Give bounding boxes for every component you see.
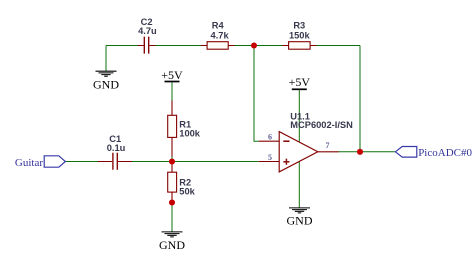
svg-text:4.7u: 4.7u xyxy=(138,26,157,36)
svg-text:+5V: +5V xyxy=(289,75,311,89)
svg-text:Guitar: Guitar xyxy=(15,157,43,169)
op-amp minus sign xyxy=(283,140,289,142)
svg-text:GND: GND xyxy=(159,238,185,252)
value label R2 xyxy=(179,178,195,197)
wire +5V rail down through R1 to signal node xyxy=(171,82,173,162)
resistor R4 xyxy=(207,42,228,50)
wire right vertical from top rail down to output node xyxy=(359,46,361,152)
svg-text:MCP6002-I/SN: MCP6002-I/SN xyxy=(290,120,353,130)
value label U1.1 MCP6002 xyxy=(290,111,353,130)
junction node R2 bottom xyxy=(169,199,175,205)
pin stubs R2 xyxy=(171,162,173,203)
pin stubs C1 xyxy=(98,161,132,163)
ground GND2 under op-amp xyxy=(287,208,313,228)
wire main signal path Guitar to C1 to pin 5 xyxy=(65,161,259,163)
wire GND1 drop from top rail xyxy=(105,46,107,71)
wire top feedback rail from GND corner to right corner xyxy=(106,45,360,47)
pin number 5 xyxy=(268,153,272,162)
svg-text:5: 5 xyxy=(268,153,272,162)
svg-text:GND: GND xyxy=(287,214,313,228)
junction node output xyxy=(357,149,363,155)
svg-text:GND: GND xyxy=(93,77,119,91)
svg-text:50k: 50k xyxy=(179,186,195,196)
wire from R4/R3 junction down and right to pin 6 xyxy=(254,46,259,142)
resistor R1 xyxy=(168,115,177,137)
wire op-amp V- to GND2 xyxy=(298,161,300,207)
global label Guitar xyxy=(15,156,66,169)
pin stubs C2 xyxy=(138,45,156,47)
svg-text:100k: 100k xyxy=(179,129,201,139)
pin number 7 xyxy=(326,141,330,150)
wire output apex to node and to PicoADC label xyxy=(338,151,395,153)
op-amp plus sign xyxy=(283,159,289,165)
power +5V symbol right xyxy=(289,75,311,89)
pin 6 stub op-amp xyxy=(259,140,279,142)
capacitor C1 xyxy=(113,153,117,170)
svg-text:150k: 150k xyxy=(289,31,311,41)
svg-text:4.7k: 4.7k xyxy=(211,31,230,41)
pin 5 stub op-amp xyxy=(259,161,279,163)
pin stubs R4 xyxy=(201,45,235,47)
pin 7 stub op-amp output xyxy=(318,151,339,153)
junction node R1/R2 input xyxy=(169,158,175,164)
resistor R3 xyxy=(289,42,311,50)
svg-text:6: 6 xyxy=(268,133,272,142)
svg-text:R3: R3 xyxy=(293,21,305,31)
wire +5V to op-amp V+ xyxy=(298,89,300,141)
resistor R2 xyxy=(168,172,177,192)
ground GND3 under R2 xyxy=(159,232,185,252)
ground GND1 top-left xyxy=(93,71,119,91)
power +5V symbol left xyxy=(161,68,183,82)
op-amp U1 triangle xyxy=(279,132,318,172)
svg-text:7: 7 xyxy=(326,141,330,150)
junction node R4/R3 xyxy=(251,42,257,48)
value label R3 xyxy=(289,21,311,41)
svg-text:+5V: +5V xyxy=(161,68,183,82)
global label PicoADC#0 xyxy=(395,147,472,160)
value label R1 xyxy=(179,120,201,139)
value label C1 xyxy=(107,134,126,153)
capacitor C2 xyxy=(144,37,148,54)
svg-text:PicoADC#0: PicoADC#0 xyxy=(418,147,472,159)
value label C2 xyxy=(138,17,157,36)
svg-text:R4: R4 xyxy=(212,21,225,31)
pin stubs R3 xyxy=(282,45,316,47)
value label R4 xyxy=(211,21,230,41)
svg-text:0.1u: 0.1u xyxy=(107,143,126,153)
pin stubs R1 xyxy=(171,101,173,157)
wire R2 branch down to GND3 xyxy=(171,162,173,232)
pin number 6 xyxy=(268,133,272,142)
